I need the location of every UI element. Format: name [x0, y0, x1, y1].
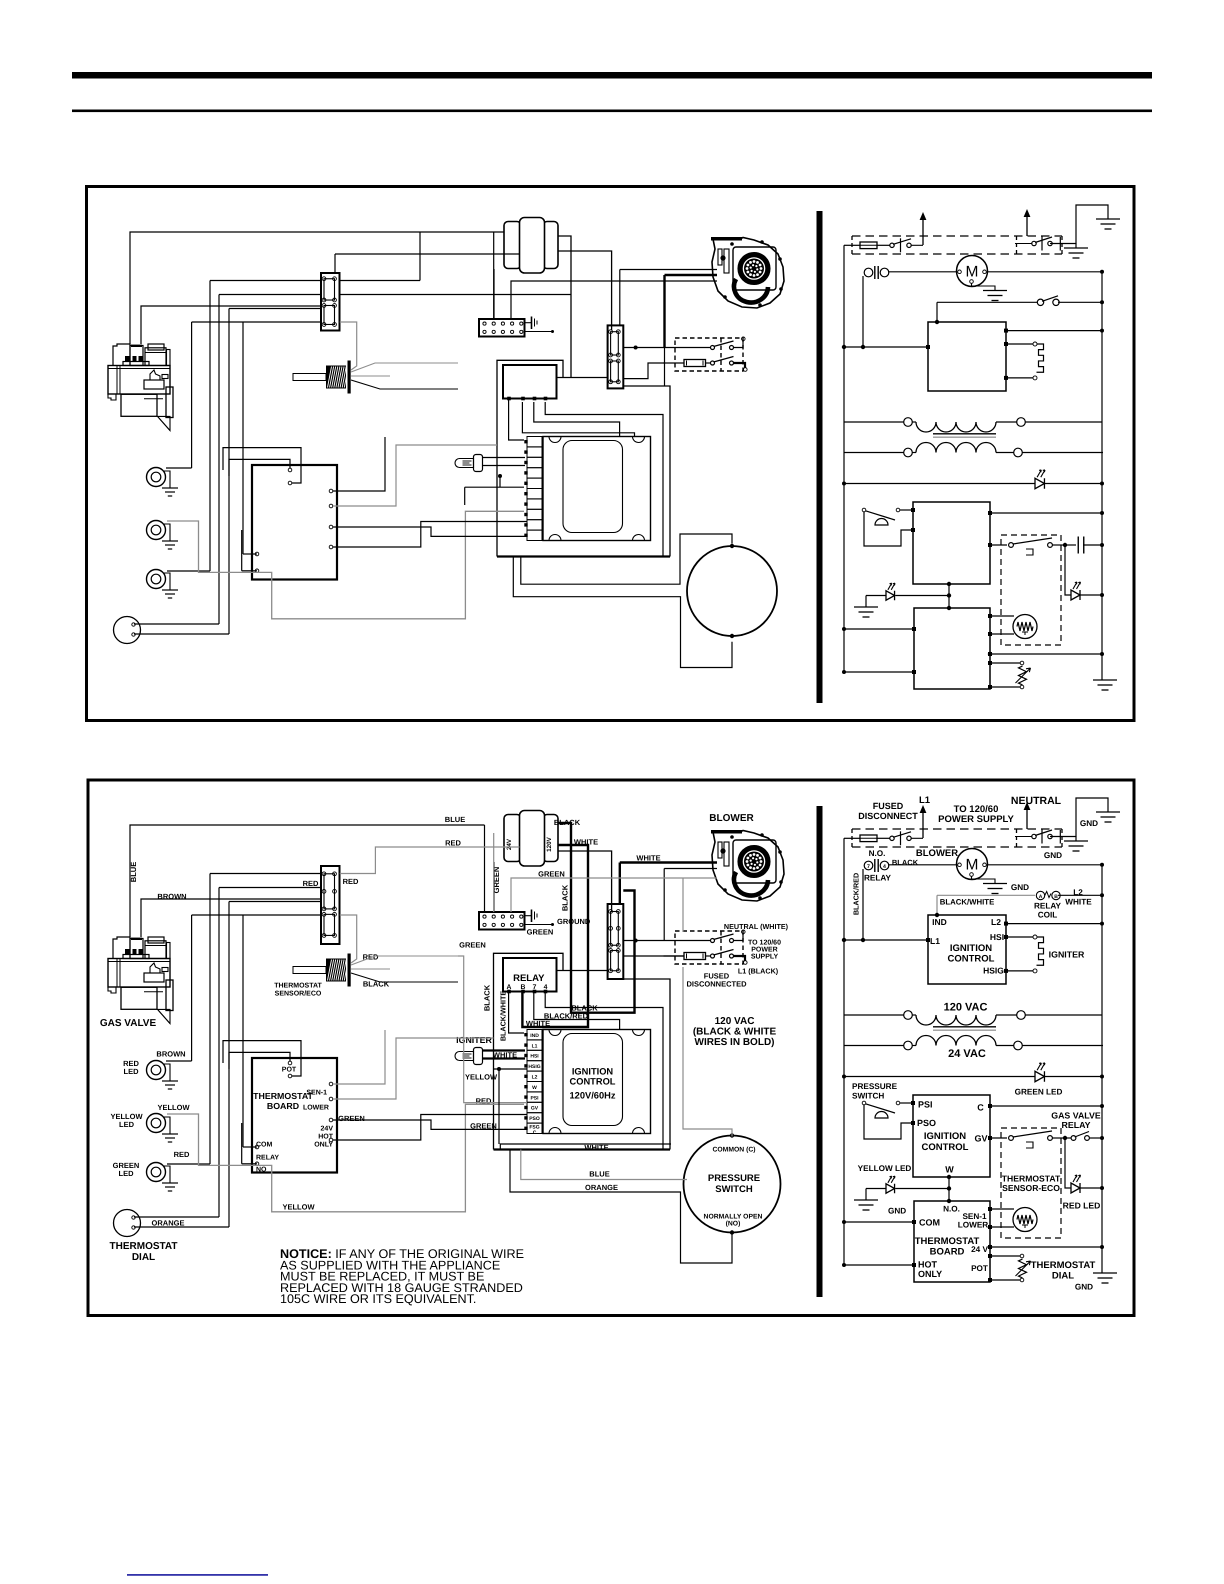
wire transformer left to plug [493, 862, 495, 912]
red LED wire [1065, 545, 1071, 595]
svg-text:L2: L2 [532, 1075, 538, 1081]
svg-text:POT: POT [971, 1264, 988, 1273]
pressure switch symbol (ladder) [862, 508, 866, 512]
wire W drop [948, 584, 950, 608]
ignition control window [563, 1034, 623, 1126]
wire SEN-1 row to solenoid [988, 614, 992, 618]
svg-text:PSI: PSI [530, 1095, 539, 1101]
blower fan [738, 846, 770, 878]
svg-text:SWITCH: SWITCH [852, 1092, 884, 1101]
wire dial 2 [228, 309, 230, 635]
wire to ground top right [1050, 205, 1108, 244]
wire relay pin A to IND [509, 993, 524, 1033]
blower scroll outlet [734, 872, 768, 896]
wire strip jumper [465, 486, 524, 488]
wire neutral drop to ground G2 [1075, 837, 1077, 842]
wire gray led2 long [167, 1104, 524, 1212]
wire HSI row + igniter element [1004, 342, 1008, 346]
svg-text:BLUE: BLUE [589, 1170, 609, 1179]
transformer 120V/24V [504, 222, 521, 269]
blower details [718, 842, 722, 858]
svg-text:N.O.: N.O. [943, 1205, 960, 1214]
ignition control box (ladder) [928, 915, 1006, 984]
svg-text:THERMOSTAT: THERMOSTAT [915, 1236, 980, 1247]
pressure switch [684, 1136, 781, 1233]
wire GV row [988, 1136, 992, 1140]
switch contact lower [711, 361, 715, 365]
wire board left pin [242, 322, 244, 554]
ignition control box 2 (ladder) [913, 1095, 990, 1177]
wire blue drop to plug [493, 232, 495, 319]
wire board pin sen [333, 437, 385, 491]
wire transformer 120v right [558, 251, 612, 330]
svg-text:BLACK: BLACK [561, 884, 570, 911]
transformer 120V/24V [504, 815, 521, 862]
blower fan [738, 253, 770, 285]
wire relay pin 7 path [534, 402, 620, 437]
svg-text:RED: RED [303, 879, 319, 888]
svg-text:M: M [966, 264, 979, 281]
relay contact 7-4 with capacitor [864, 861, 873, 870]
wire blue gas valve [130, 232, 504, 344]
wire board com [241, 530, 243, 571]
arrow L1 [922, 218, 924, 245]
red LED pictorial ground [163, 1064, 170, 1081]
wire board left pin [242, 915, 244, 1147]
panel 2 border [88, 780, 1134, 1316]
svg-text:PSO: PSO [917, 1118, 936, 1128]
fuse F1 (ladder) [844, 837, 860, 839]
svg-text:M: M [966, 857, 979, 874]
svg-text:24V: 24V [321, 1126, 334, 1133]
wire coil row [937, 894, 1035, 896]
wire brown gas valve [141, 899, 321, 937]
fuse [684, 953, 706, 960]
wire C row [988, 511, 992, 515]
wire fused disconnect feed bottom [623, 955, 684, 957]
thermostat dial [114, 1210, 141, 1237]
wire white blower [620, 861, 717, 863]
svg-text:IGNITER: IGNITER [456, 1035, 492, 1045]
red LED pictorial [147, 468, 166, 487]
svg-text:YELLOW: YELLOW [157, 1103, 190, 1112]
svg-text:IND: IND [932, 917, 947, 927]
gas valve relay contact [1009, 1136, 1014, 1141]
svg-text:DIAL: DIAL [1052, 1271, 1074, 1282]
svg-text:ORANGE: ORANGE [152, 1219, 185, 1228]
green LED (ladder) [1035, 478, 1044, 489]
plate mounting holes [549, 437, 561, 443]
blower housing [712, 238, 784, 309]
wire connector pins left [210, 280, 321, 282]
svg-text:4: 4 [883, 864, 886, 870]
svg-text:L1: L1 [930, 936, 940, 946]
thermostat board box [252, 1058, 337, 1173]
svg-text:YELLOW LED: YELLOW LED [858, 1164, 912, 1173]
footer blue rule [127, 1574, 268, 1576]
svg-text:COMMON (C): COMMON (C) [712, 1147, 755, 1154]
wire L2 row [1004, 329, 1008, 333]
svg-text:RELAY: RELAY [864, 874, 892, 883]
wire green-led row [844, 483, 1035, 485]
wire board com [241, 1123, 243, 1164]
svg-text:GREEN: GREEN [527, 928, 554, 937]
fused disconnect dashed box [675, 338, 743, 371]
svg-text:ONLY: ONLY [918, 1269, 942, 1279]
relay box [503, 365, 557, 399]
wire right rail [1101, 865, 1103, 1273]
blower inlet bar [711, 237, 742, 241]
svg-text:GREEN: GREEN [338, 1114, 365, 1123]
svg-text:N.O.: N.O. [869, 849, 886, 858]
transformer core [933, 1026, 996, 1028]
fused disconnect dashed outline (ladder) [852, 235, 1062, 237]
svg-text:LOWER: LOWER [303, 1105, 329, 1112]
svg-text:CONTROL: CONTROL [922, 1142, 969, 1153]
wire L2 row [1004, 922, 1008, 926]
svg-text:LED: LED [119, 1169, 135, 1178]
sensor fan-out wires [351, 956, 458, 965]
pressure switch symbol (ladder) [862, 1101, 866, 1105]
pressure switch [687, 546, 777, 636]
wire HSI row + igniter element [1004, 935, 1008, 939]
switch SW2 neutral [1032, 241, 1036, 245]
ignition control box (ladder) [928, 322, 1006, 391]
wire board top pins [223, 1041, 301, 1076]
svg-text:GROUND: GROUND [557, 917, 591, 926]
wire gray led2 long [167, 511, 524, 619]
thermostat dial pot symbol [1019, 1259, 1027, 1278]
svg-text:LED: LED [124, 1067, 140, 1076]
wire left rail lower [843, 422, 845, 672]
svg-text:SENSOR-ECO: SENSOR-ECO [1002, 1183, 1060, 1193]
svg-text:RED: RED [343, 877, 359, 886]
wire green long [511, 281, 717, 319]
yellow LED pictorial ground [163, 524, 170, 541]
wire relay to inline connector [557, 377, 608, 379]
thermostat board box (ladder) [914, 608, 990, 689]
wire white blower [620, 269, 717, 271]
wire neutral drop to ground G2 [1075, 244, 1077, 249]
wire to ground top right [1050, 798, 1108, 837]
svg-text:DIAL: DIAL [132, 1252, 155, 1263]
motor M [957, 256, 988, 287]
wire fused disconnect feed top [623, 940, 710, 942]
wire fused disconnect feed top [623, 347, 710, 349]
wire LOWER row to solenoid [988, 632, 992, 636]
svg-text:IGNITER: IGNITER [1049, 950, 1085, 960]
svg-text:L1: L1 [919, 795, 931, 806]
svg-text:LOWER: LOWER [958, 1221, 989, 1230]
svg-text:LED: LED [119, 1120, 135, 1129]
svg-text:COIL: COIL [1038, 911, 1058, 920]
chassis plug connector [479, 912, 525, 930]
svg-text:WHITE: WHITE [636, 854, 660, 863]
arrow NEUTRAL [1026, 215, 1028, 236]
wire transformer 24v right [558, 823, 635, 1013]
wire left rail upper [843, 838, 845, 1015]
wire relay pin 4 path [545, 993, 663, 1150]
gas valve body [113, 344, 130, 366]
ignition control outer box [494, 953, 564, 970]
thin rule [72, 110, 1152, 113]
neutral terminal [734, 341, 744, 348]
wire connector to sensor [340, 322, 357, 370]
blower frame [733, 840, 776, 883]
wire relay to inline connector [557, 970, 608, 972]
wire green long [511, 878, 717, 912]
wire right rail [1101, 272, 1103, 680]
ignition control terminal strip [527, 1030, 542, 1040]
svg-text:POWER SUPPLY: POWER SUPPLY [938, 814, 1014, 825]
svg-text:THERMOSTAT: THERMOSTAT [253, 1091, 313, 1101]
svg-text:BLACK: BLACK [892, 858, 919, 867]
dashed box thermostat sensor (ladder) [1001, 1128, 1061, 1238]
transformer primary [904, 1011, 913, 1020]
wire HOT row [844, 1264, 914, 1266]
svg-text:DISCONNECT: DISCONNECT [858, 811, 918, 821]
red LED wire [1065, 1138, 1071, 1188]
wire coil row [937, 301, 1037, 303]
wire connector block [321, 866, 340, 944]
thermostat sensor/eco [293, 374, 326, 381]
wire blue gas valve [130, 825, 485, 937]
svg-text:24 V: 24 V [971, 1245, 988, 1254]
wire orange pressure switch bottom [510, 1150, 732, 1264]
switch contact lower [711, 954, 715, 958]
wire transformer left to plug [493, 269, 495, 319]
motor M [957, 849, 988, 880]
svg-text:W: W [945, 1165, 954, 1175]
yellow LED pictorial ground [163, 1117, 170, 1134]
svg-text:W: W [532, 1085, 537, 1091]
wire black/red drop [862, 869, 864, 940]
svg-text:C: C [977, 1103, 984, 1113]
yellow LED pictorial [147, 1114, 166, 1133]
wire connector to sensor [340, 915, 357, 963]
svg-text:PSO: PSO [529, 1116, 540, 1122]
wire board pin hot [333, 522, 527, 548]
wire pressure switch top riser [683, 967, 732, 1137]
wire white box bottom [500, 1144, 671, 1150]
svg-text:120 VAC: 120 VAC [715, 1016, 755, 1027]
svg-text:GREEN: GREEN [459, 941, 486, 950]
wire black/red drop [862, 276, 864, 347]
svg-text:WHITE: WHITE [1065, 898, 1092, 907]
svg-text:IGNITION: IGNITION [572, 1067, 614, 1077]
ground G2 [1064, 840, 1088, 842]
blower scroll outlet [734, 279, 768, 303]
yellow LED wire [866, 595, 886, 597]
svg-text:BLACK/RED: BLACK/RED [852, 873, 861, 915]
wire W drop [948, 1177, 950, 1201]
gas valve body [113, 937, 130, 959]
green LED pictorial ground [163, 1166, 170, 1183]
plate mounting holes [549, 1030, 561, 1036]
wire led1 drop [191, 915, 193, 1061]
green LED pictorial [147, 1163, 166, 1182]
wire dial 1 [218, 888, 220, 1218]
svg-text:120V/60Hz: 120V/60Hz [570, 1091, 616, 1101]
svg-text:BLACK/WHITE: BLACK/WHITE [940, 898, 995, 907]
blower details [718, 249, 722, 265]
red LED (ladder) [1071, 1183, 1080, 1193]
svg-text:RELAY: RELAY [1034, 902, 1062, 911]
yellow LED wire [866, 1188, 886, 1190]
svg-text:PSI: PSI [918, 1100, 933, 1110]
L1 terminal bold [734, 956, 746, 961]
inline connector [608, 904, 624, 979]
wire board pin lower [333, 1038, 494, 1099]
ground G3 motor [983, 290, 1007, 292]
wire blue drop to plug [484, 825, 486, 912]
wire LOWER row to solenoid [988, 1225, 992, 1229]
svg-text:C: C [533, 1130, 537, 1136]
transformer core [933, 433, 996, 435]
wire pressure switch bottom [513, 557, 732, 668]
transformer secondary [904, 1041, 913, 1050]
red LED pictorial [147, 1061, 166, 1080]
svg-text:YELLOW: YELLOW [465, 1073, 498, 1082]
wire relay pin A to IND [509, 400, 524, 440]
ground G4 bottom right [1093, 679, 1117, 681]
wire led3 drop [209, 874, 211, 1165]
svg-text:BOARD: BOARD [267, 1101, 299, 1111]
gas valve solenoid (ladder) [1013, 1208, 1037, 1232]
igniter [455, 1052, 474, 1061]
gas valve solenoid (ladder) [1013, 615, 1037, 639]
svg-text:(NO): (NO) [726, 1221, 741, 1228]
svg-text:NO: NO [256, 1167, 267, 1174]
neutral terminal [734, 934, 744, 941]
wire relay pin 4 path [545, 402, 663, 557]
wire POT rows + dial pot [988, 661, 992, 665]
ignition control plate [543, 437, 651, 541]
svg-text:24 VAC: 24 VAC [948, 1048, 986, 1060]
sensor fan-out wires [351, 363, 458, 372]
svg-text:WHITE: WHITE [584, 1143, 608, 1152]
svg-text:GAS VALVE: GAS VALVE [1051, 1111, 1101, 1121]
svg-text:GND: GND [1011, 883, 1029, 892]
wire COM row [844, 628, 914, 630]
igniter [455, 459, 474, 468]
wire black blower 2 [665, 274, 718, 276]
wire board pin green [333, 527, 527, 536]
wire board pin green [333, 1120, 527, 1129]
svg-text:THERMOSTAT: THERMOSTAT [274, 983, 322, 990]
svg-text:GND: GND [1080, 819, 1098, 828]
ignition control plate [543, 1030, 651, 1134]
wire led1 drop [191, 322, 193, 468]
chassis plug connector [479, 319, 525, 337]
wire SEN-1 row to solenoid [988, 1207, 992, 1211]
wire 120VAC row [844, 421, 904, 423]
svg-text:GND: GND [1075, 1283, 1093, 1292]
svg-text:COM: COM [256, 1142, 273, 1149]
thermostat board box (ladder) [914, 1201, 990, 1282]
transformer secondary [904, 448, 913, 457]
svg-text:IGNITION: IGNITION [924, 1131, 966, 1142]
wire relay pin B path [522, 402, 634, 437]
svg-text:NEUTRAL: NEUTRAL [1011, 795, 1062, 807]
ignition control window [563, 441, 623, 533]
fused disconnect dashed box [675, 931, 743, 964]
panel 2 divider bar [817, 806, 823, 1297]
wire left rail upper [843, 245, 845, 422]
fused disconnect dashed outline (ladder) [852, 828, 1062, 830]
svg-text:CONTROL: CONTROL [948, 954, 995, 965]
panel 1 border [87, 187, 1135, 721]
svg-text:120V: 120V [546, 836, 553, 852]
wire transformer 120v right [558, 851, 612, 911]
wire pressure switch top [521, 534, 732, 584]
inline connector [608, 325, 624, 388]
L1 terminal bold [734, 363, 746, 368]
svg-text:RELAY: RELAY [1061, 1120, 1090, 1130]
svg-text:THERMOSTAT: THERMOSTAT [1002, 1174, 1061, 1184]
svg-text:BOARD: BOARD [930, 1247, 965, 1258]
wire 24V row [988, 1245, 992, 1249]
thermostat dial [114, 617, 141, 644]
blower inlet bar [711, 830, 742, 834]
svg-text:SUPPLY: SUPPLY [751, 954, 779, 961]
wire connector right to blue riser [340, 280, 421, 282]
svg-text:SENSOR/ECO: SENSOR/ECO [275, 990, 322, 998]
wire yellow drop [494, 1068, 528, 1070]
svg-text:HSIG: HSIG [983, 966, 1004, 976]
wire 24V row [988, 652, 992, 656]
ground G1 top right [1096, 218, 1120, 220]
wire brown gas valve [141, 306, 321, 344]
red LED (ladder) [1071, 590, 1080, 600]
thermostat dial pot symbol [1019, 666, 1027, 685]
svg-text:WIRES IN BOLD): WIRES IN BOLD) [695, 1037, 775, 1048]
svg-text:HSI: HSI [990, 932, 1004, 942]
svg-text:RED LED: RED LED [1063, 1201, 1101, 1211]
wire POT rows + dial pot [988, 1254, 992, 1258]
svg-text:GV: GV [974, 1134, 987, 1144]
igniter wires [483, 1049, 525, 1051]
svg-text:TO 120/60: TO 120/60 [748, 939, 781, 947]
svg-text:NORMALLY OPEN: NORMALLY OPEN [704, 1214, 763, 1221]
svg-text:BLACK: BLACK [483, 984, 492, 1011]
svg-text:DISCONNECTED: DISCONNECTED [686, 980, 747, 989]
yellow LED (ladder) [886, 1184, 895, 1194]
svg-text:SEN-1: SEN-1 [306, 1090, 327, 1097]
gas valve relay contact [1009, 543, 1014, 548]
fuse [684, 360, 706, 367]
green LED (ladder) [1035, 1071, 1044, 1082]
svg-text:IGNITION: IGNITION [950, 943, 992, 954]
relay contact 7-4 with capacitor [864, 268, 873, 277]
svg-text:HOT: HOT [918, 1260, 938, 1270]
svg-text:HOT: HOT [318, 1134, 334, 1141]
ground G1 top right [1096, 811, 1120, 813]
wire motor row [888, 271, 957, 273]
svg-text:YELLOW: YELLOW [282, 1203, 315, 1212]
top heavy rule [72, 72, 1152, 79]
switch contact upper [711, 346, 715, 350]
arrow L1 [922, 811, 924, 838]
wire board pin hot [333, 1115, 527, 1141]
red LED pictorial ground [163, 471, 170, 488]
green LED pictorial ground [163, 573, 170, 590]
gas valve relay contact 2 [1065, 1137, 1071, 1139]
ground G5 yellow led [854, 606, 878, 608]
svg-text:CONTROL: CONTROL [570, 1077, 616, 1087]
svg-text:BROWN: BROWN [156, 1050, 185, 1059]
wire green vertical plug [493, 833, 495, 912]
